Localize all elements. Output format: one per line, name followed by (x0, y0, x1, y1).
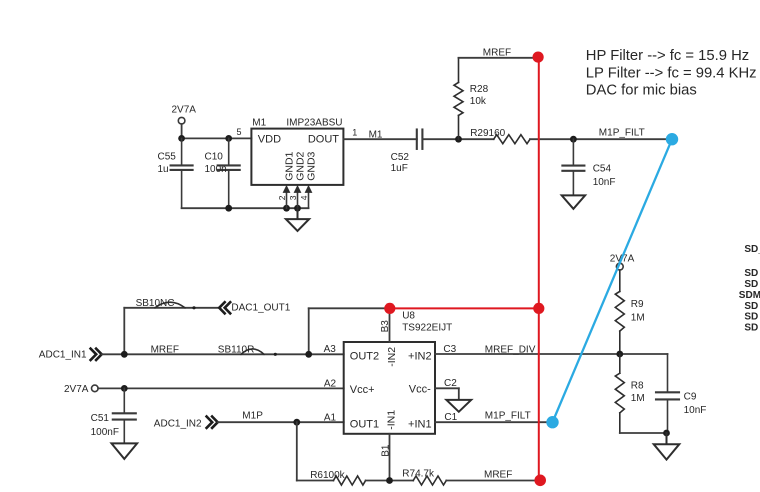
wire MREF to red node (top) (459, 57, 539, 59)
svg-text:VDD: VDD (258, 134, 281, 146)
svg-text:C9: C9 (684, 392, 697, 403)
svg-text:B1: B1 (381, 444, 392, 457)
wire MREF_DIV row (U8 C3 to divider) (435, 353, 668, 355)
capacitor C54 10nF (562, 139, 584, 195)
node red bottom (534, 475, 546, 487)
wire MREF highlight (red horizontal to U8 B3) (390, 307, 539, 309)
svg-text:A1: A1 (324, 412, 337, 423)
svg-text:LP Filter --> fc = 99.4 KHz: LP Filter --> fc = 99.4 KHz (586, 66, 757, 82)
svg-text:SD: SD (744, 279, 758, 290)
svg-text:R8: R8 (631, 380, 644, 391)
capacitor C55 1u (171, 138, 193, 208)
wire M1P_FILT row (U8 C1 to cyan node) (435, 421, 553, 423)
svg-text:U8: U8 (402, 311, 415, 322)
svg-text:OUT1: OUT1 (350, 419, 379, 431)
svg-text:HP Filter --> fc = 15.9 Hz: HP Filter --> fc = 15.9 Hz (586, 48, 749, 64)
svg-text:MREF: MREF (483, 48, 511, 59)
pin GND2 (288, 151, 307, 208)
svg-text:M1P: M1P (242, 410, 263, 421)
svg-text:Vcc-: Vcc- (409, 384, 431, 396)
solder bridge SB11 0R (241, 349, 264, 354)
svg-text:IMP23ABSU: IMP23ABSU (286, 117, 342, 128)
svg-text:+IN1: +IN1 (408, 419, 432, 431)
svg-text:3: 3 (288, 195, 298, 200)
svg-text:10k: 10k (470, 96, 487, 107)
note text HP/LP/DAC (586, 48, 757, 98)
node red mid (533, 303, 544, 314)
node C10 bottom (225, 205, 232, 212)
resistor R28 10k (454, 58, 463, 139)
svg-text:GND3: GND3 (306, 151, 318, 180)
svg-text:B3: B3 (380, 320, 391, 333)
resistor R6 100k (333, 476, 365, 485)
svg-text:100nF: 100nF (91, 427, 119, 438)
svg-text:C52: C52 (391, 152, 410, 163)
wire M1P node down to feedback row (296, 422, 298, 480)
node cyan bottom (546, 416, 558, 428)
svg-text:SB110R: SB110R (218, 345, 255, 356)
svg-text:ADC1_IN1: ADC1_IN1 (39, 350, 87, 361)
pin B3 stub (389, 308, 391, 342)
capacitor C10 100n (218, 138, 240, 208)
svg-text:R6100k: R6100k (310, 470, 345, 481)
svg-text:MREF: MREF (151, 345, 179, 356)
capacitor C52 1uF (417, 130, 423, 149)
ground (divider) (654, 433, 680, 460)
svg-text:1M: 1M (631, 393, 645, 404)
svg-text:2V7A: 2V7A (64, 384, 89, 395)
svg-text:MREF: MREF (484, 469, 512, 480)
node DAC1/A3 (305, 351, 312, 358)
resistor R8 1M (615, 354, 624, 433)
wire R6 to R7 (366, 480, 414, 482)
svg-text:M1P_FILT: M1P_FILT (599, 127, 645, 138)
ground (C2) (446, 400, 471, 412)
resistor R9 1M (615, 270, 624, 354)
node red U8 B3 (384, 303, 395, 314)
resistor R29 160 (494, 135, 530, 144)
svg-text:C1: C1 (444, 412, 457, 423)
svg-text:1: 1 (352, 127, 357, 137)
wire R29 to M1P_FILT (530, 138, 672, 140)
wire MREF row (ADC1_IN1 to U8 A3) (102, 353, 344, 355)
svg-text:-IN1: -IN1 (386, 410, 398, 430)
svg-text:C55: C55 (158, 152, 177, 163)
svg-text:2V7A: 2V7A (172, 105, 197, 116)
wire M1P_FILT highlight (cyan) (553, 139, 673, 422)
solder bridge SB10 NC (155, 302, 185, 308)
svg-text:1u: 1u (158, 164, 169, 175)
svg-text:TS922EIJT: TS922EIJT (402, 323, 452, 334)
svg-text:10nF: 10nF (684, 405, 707, 416)
wire R7 to red node (bottom MREF) (446, 480, 539, 482)
svg-text:2: 2 (277, 195, 287, 200)
svg-text:+IN2: +IN2 (408, 351, 432, 363)
svg-text:SB10NC: SB10NC (136, 298, 175, 309)
svg-text:C2: C2 (444, 378, 457, 389)
svg-text:M1: M1 (252, 117, 266, 128)
svg-text:R74.7k: R74.7k (402, 468, 435, 479)
svg-text:Vcc+: Vcc+ (350, 384, 375, 396)
svg-text:SDM: SDM (739, 290, 760, 301)
wire M1P row (ADC1_IN2 to U8 A1) (218, 421, 344, 423)
wire C52 to R29 node (422, 138, 493, 140)
svg-text:C51: C51 (91, 413, 110, 424)
svg-text:100n: 100n (205, 164, 227, 175)
node B1 (386, 477, 393, 484)
node at C10 top (225, 135, 232, 142)
svg-text:C10: C10 (205, 152, 224, 163)
svg-text:C54: C54 (593, 164, 612, 175)
svg-text:C3: C3 (443, 344, 456, 355)
wire SB10 row corner from ADC1_IN1 node (123, 308, 125, 355)
svg-text:A3: A3 (324, 344, 337, 355)
op-amp U8 TS922EIJT (344, 311, 453, 434)
node divider mid (616, 351, 623, 358)
node C54 top (570, 136, 577, 143)
wire feedback row (297, 480, 334, 482)
pin GND3 (299, 151, 318, 208)
wire divider bottom (620, 432, 668, 434)
node at C55 top (178, 135, 185, 142)
svg-text:M1: M1 (369, 129, 383, 140)
wire ground bus under M1 (182, 207, 309, 209)
svg-text:R28: R28 (470, 84, 489, 95)
wire DAC1_OUT1 to U8 B3 (via corner) (309, 307, 390, 309)
node C51 top (121, 385, 128, 392)
svg-text:4: 4 (299, 195, 309, 200)
pin C2 stub to ground (435, 388, 459, 400)
svg-text:SD: SD (744, 312, 758, 323)
svg-text:R29160: R29160 (470, 128, 505, 139)
svg-text:1uF: 1uF (391, 163, 408, 174)
power 2V7A (top) (172, 105, 197, 139)
microphone M1 IMP23ABSU (251, 117, 343, 185)
svg-text:10nF: 10nF (593, 177, 616, 188)
resistor R7 4.7k (413, 476, 446, 485)
svg-text:MREF_DIV: MREF_DIV (485, 344, 536, 355)
node M1P (293, 419, 300, 426)
svg-text:SD_: SD_ (744, 244, 760, 255)
net labels SD* (right edge, clipped) (739, 244, 760, 334)
svg-text:DAC for mic bias: DAC for mic bias (586, 83, 697, 99)
pin B1 stub (389, 434, 391, 481)
svg-text:SD: SD (744, 268, 758, 279)
node GND1 bus (283, 205, 290, 212)
pin GND1 (277, 151, 296, 208)
ground (C51) (112, 443, 138, 459)
svg-text:ADC1_IN2: ADC1_IN2 (154, 418, 202, 429)
wire MREF highlight (red vertical) (538, 57, 540, 480)
node red top (533, 52, 544, 63)
ground (M1) (286, 208, 309, 231)
wire 2V7A to U8 A2 (98, 387, 344, 389)
svg-text:SD: SD (744, 323, 758, 334)
node C9 bottom (663, 430, 670, 437)
ground (C54) (562, 195, 585, 208)
svg-text:1M: 1M (631, 312, 645, 323)
svg-text:SD: SD (744, 301, 758, 312)
svg-text:5: 5 (237, 127, 242, 137)
wire M1 DOUT to C52 (343, 138, 416, 140)
node R28/R29 (455, 136, 462, 143)
svg-text:M1P_FILT: M1P_FILT (485, 410, 531, 421)
node GND2 bus (294, 205, 301, 212)
svg-text:DAC1_OUT1: DAC1_OUT1 (231, 302, 290, 313)
port DAC1_OUT1 (input chevron) (219, 302, 230, 313)
svg-text:DOUT: DOUT (308, 134, 339, 146)
svg-text:-IN2: -IN2 (386, 347, 398, 367)
svg-text:R9: R9 (631, 299, 644, 310)
node cyan top (666, 133, 678, 145)
capacitor C9 10nF (656, 354, 679, 433)
svg-text:A2: A2 (324, 378, 337, 389)
node ADC1_IN1 (121, 351, 128, 358)
wire 2V7A rail to M1 VDD pin 5 (182, 137, 252, 139)
capacitor C51 100nF (113, 388, 136, 443)
svg-text:OUT2: OUT2 (350, 351, 379, 363)
